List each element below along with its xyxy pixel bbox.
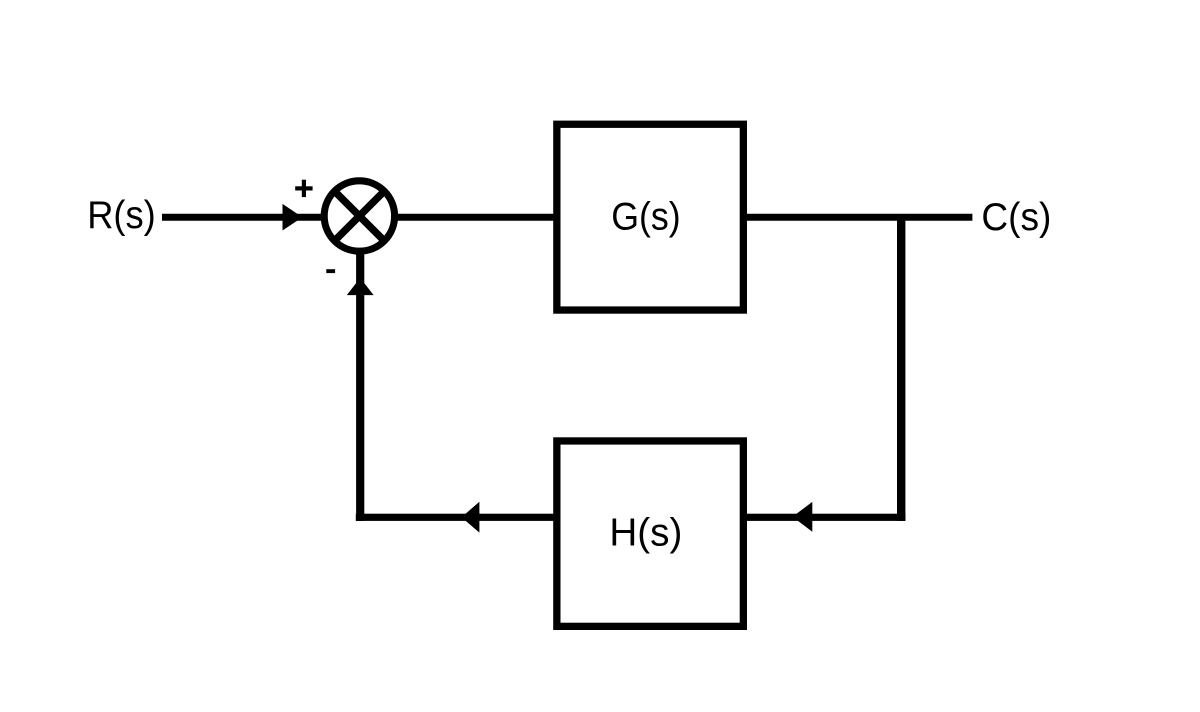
node branch takeoff, vertical wire down from output (897, 214, 905, 521)
arrowhead on feedback wire pointing left (462, 502, 480, 533)
svg-text:C(s): C(s) (981, 196, 1051, 239)
svg-text:R(s): R(s) (87, 194, 156, 237)
wire feedback vertical up to summing junction (356, 252, 364, 521)
arrowhead up into summing junction minus input (347, 278, 374, 295)
arrowhead into summing junction (283, 204, 303, 231)
svg-text:H(s): H(s) (609, 512, 682, 555)
minus sign at summing junction feedback input (326, 269, 335, 273)
wire branch to H(s) right side (744, 514, 906, 521)
block G(s) box (557, 124, 744, 310)
wire R(s) to summing junction (162, 214, 325, 221)
wire H(s) left side to feedback corner (356, 514, 556, 521)
summing junction circle (324, 181, 394, 251)
wire summing junction to G(s) (394, 214, 557, 221)
summing junction X mark (335, 191, 385, 241)
block H(s) box (557, 441, 744, 626)
wire G(s) to C(s) output (744, 214, 972, 221)
svg-text:G(s): G(s) (611, 196, 681, 239)
plus sign at summing junction input (295, 186, 312, 190)
arrowhead into H(s) from right (793, 502, 813, 532)
